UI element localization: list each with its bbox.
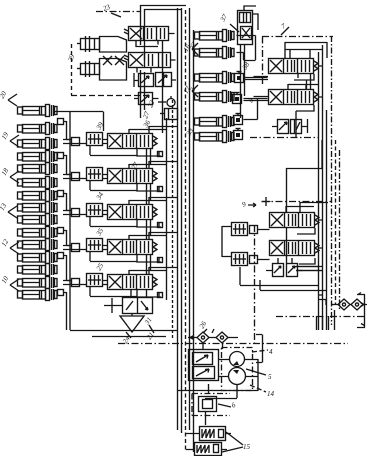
label 22 gauge [146,99,166,109]
enclosure 9 dash-dot top border [262,201,332,203]
cylinder bank row 6 [18,177,58,189]
label 15 [243,443,251,451]
wire V5 drain below [137,290,161,297]
valve V2 pilot box [87,168,103,181]
node V1 spring square [158,152,163,157]
label 31 [143,316,154,327]
fitting on cylinder group 2 [58,153,64,159]
label 4 [269,348,273,356]
wire V2 pilot return [90,181,137,191]
wire upper cylinders feed 2 [244,78,268,120]
label 14 [267,390,275,398]
wire T3 links [134,73,176,87]
cylinder bank row 11 [18,239,58,251]
valve T3 check-relief left [139,74,154,87]
cylinder bank row 15 [18,289,58,301]
wire dash-dot horizontal mid right [250,137,318,139]
wire box6 dash-dot frame [192,394,230,416]
fitting pilot-lock upper cylinder 5 [234,113,243,125]
valve V1 directional control valve [108,134,158,149]
label 27a small [141,110,151,120]
label 30 leader cross [115,56,124,65]
svg-text:18: 18 [0,167,10,177]
wire V1 to bus upper [129,126,178,133]
cylinder bank row 9 [18,214,58,226]
wire V5 feed from cylinders [63,281,107,285]
wire center line short [166,118,168,300]
wire right bus dash-dot 1 [331,36,333,325]
fitting on cylinder group 4 [58,228,64,234]
valve 37 solenoid block outer [238,11,253,45]
enclosure 7 dash-dot left border [262,37,264,86]
pump M2 unit lower [77,61,100,77]
svg-text:37: 37 [218,13,229,24]
valve V4 directional control valve [108,240,158,255]
svg-text:34: 34 [94,191,105,202]
wire bottom-left collector 2 [92,336,166,338]
pump P4 circle lower [229,368,246,385]
wire V4 pilot return [90,252,137,262]
wire right bus line 3 [326,110,328,330]
check valve diamond bottom-center right [216,332,228,343]
valve pair below R2 right [291,120,302,134]
wire V1 pilot return [90,146,137,156]
wire T2 ports [137,60,176,73]
label 34 mid column [94,191,105,202]
wire fitting link 6 [64,292,67,330]
wire right bus dash 2 [335,140,337,305]
wire bottom-left collector 1 [70,330,177,332]
svg-text:38: 38 [240,61,251,72]
wire upper bank stubs [193,36,194,137]
fitting on cylinder group 1 [58,119,64,125]
wire R valves left feeds [244,77,269,101]
wire R1 right port [294,66,322,89]
label 21 [145,325,156,341]
wire fitting link 2 [64,155,71,175]
label 36 mid column [141,119,152,130]
svg-text:35: 35 [94,227,105,238]
wire top drain riser [162,40,164,133]
wire M1 right ports [297,220,323,234]
dashed enclosure bottom border [71,95,150,97]
wire relief inlet [104,298,122,313]
valve relief block bottom of column [123,298,153,314]
label 10 cylinder group [0,275,19,291]
svg-text:5: 5 [268,373,272,381]
label 6 [218,401,237,410]
pump P3 circle upper [230,352,245,367]
wire fitting link 1 [64,121,71,140]
valve T3 check-relief right [156,73,172,87]
tank symbol triangle [120,314,144,333]
cylinder bank row 10 [18,227,58,239]
svg-text:13: 13 [0,202,8,212]
bracket right of pumps [256,335,263,363]
valve V5 directional control valve [108,275,158,290]
valve 37 upper cell [240,13,251,23]
wire M pilots feeds [222,226,270,260]
dashed enclosure left border [71,44,73,95]
wire V1 feed from cylinders [63,140,107,144]
label 39 mid column [94,121,105,132]
pump enclosure B2 dash-dot [222,348,253,391]
wire center bus line 1 [177,8,179,430]
wire V4 feed from cylinders [63,246,107,250]
valve R2 directional valve [269,90,319,105]
wire right bus line 1 [318,52,320,330]
wire dash-dot horizontal right lower [276,316,366,318]
leader to label 4 [252,350,268,352]
fitting on cylinder group 6 [58,290,64,296]
cylinder bank row 4 [18,151,58,163]
wire upper cylinders feed 1 [237,36,256,61]
node V3 spring square [158,223,163,228]
wire R2 top links [288,84,318,89]
cylinder upper bank row 6 [195,131,235,143]
cylinder upper bank row 1 [195,30,235,42]
wire right group double horizontal [292,267,322,271]
svg-text:22: 22 [146,99,156,109]
label 13 cylinder group [0,202,17,218]
label 23 top [102,3,121,17]
label 33 upper cylinders [184,127,195,138]
svg-text:27: 27 [130,161,141,171]
enclosure 9 dash-dot left border [254,225,256,344]
wire top frame inner [145,10,183,61]
valve V2 pilot fitting [72,173,80,181]
leader to label 14 [250,385,266,392]
svg-text:10: 10 [0,275,10,285]
cylinder bank row 14 [18,277,58,289]
label 37 [218,13,239,32]
label 12 cylinder group [0,238,19,254]
wire pump suction drop [205,385,237,399]
valve V3 pilot fitting [72,209,80,217]
wire V2 to bus upper [129,161,178,168]
wire diamonds right row [332,303,367,307]
valve V1 pilot fitting [72,138,80,146]
valve small box below gauge [160,109,178,120]
wire right bus line 2 [322,45,324,330]
cylinder bank row 1 [18,105,58,117]
label 28 leader cross [103,56,112,65]
check valve diamond right 1 [338,299,350,310]
wire fitting link 3 [64,193,71,211]
wire drain top-right to mid-right [286,140,322,263]
wire R1 top links [285,42,327,58]
wire w-box links [134,98,159,100]
node V4 spring square [158,258,163,263]
wire top frame left edge lower [141,70,145,118]
valve pair below M2 left [273,264,284,277]
svg-text:20: 20 [0,90,8,100]
svg-text:4: 4 [269,348,273,356]
label 24 [121,332,132,345]
wire V1 drain below [137,149,161,156]
wire below M2 pair [266,258,303,271]
leader to label 15 [222,432,243,452]
svg-text:31: 31 [143,316,154,327]
valve V4 pilot box [87,239,103,252]
enclosure 7 dash-dot top border [262,36,333,38]
node V5 spring square [158,293,163,298]
svg-text:27: 27 [141,110,151,120]
bracket far right [357,293,365,328]
wire 37 top link to bus [244,6,258,30]
label 7 [280,22,289,35]
fitting pilot-lock upper cylinder 3 [235,71,244,83]
coupling housing lower [100,59,127,81]
wire right bus steps to diamonds [318,295,334,305]
cylinder upper bank row 2 [195,47,235,59]
wire right bus dash-dot 3 [339,150,341,310]
cylinder bank row 8 [18,202,58,214]
wire center bus dashed line [185,10,187,452]
valve V4 pilot fitting [72,244,80,252]
cylinder upper bank row 4 [195,91,235,103]
wire diamonds to servo box [203,344,223,349]
valve V5 pilot box [87,274,103,287]
wire V4 to bus upper [129,232,178,239]
coupling housing upper [100,37,127,53]
wire center bus line 4 [193,30,195,452]
pilot valve small left M2 [232,253,258,266]
wire box6 to heater [206,384,209,425]
filter box 6 [199,397,217,412]
wire fitting link 5 [64,255,71,281]
wire right bus bottom stubs [317,310,335,330]
valve pair below M2 right [287,264,298,277]
wire M1 top links [286,202,328,212]
valve V3 directional control valve [108,205,158,220]
pump M1 unit upper [77,36,100,52]
label 35 mid column [94,227,105,238]
label 19 cylinder group [0,131,19,147]
svg-text:15: 15 [243,443,251,451]
leader to label 5 [246,369,266,375]
wire V3 to bus upper [129,197,178,204]
wire center dashed pilot line [172,100,174,340]
svg-text:12: 12 [0,238,10,248]
wire V4 drain below [137,255,161,262]
wire V5 to bus upper [129,267,178,274]
valve M1 directional valve [270,213,320,228]
valve 37 lower cell [241,27,252,40]
gauge pressure indicator [167,96,175,107]
wire 37 riser pair [241,45,245,119]
svg-text:17: 17 [182,85,193,95]
cylinder bank row 7 [18,190,58,202]
label 20 cylinder group [0,90,17,106]
check valve diamond bottom-center left [197,332,209,343]
svg-text:19: 19 [0,131,10,141]
svg-text:36: 36 [141,119,152,130]
node V2 spring square [158,187,163,192]
wire V2 drain below [137,184,161,191]
cylinder bank row 5 [18,163,58,175]
wire V3 pilot return [90,217,137,227]
svg-text:9: 9 [241,200,247,209]
label 38 [240,61,251,72]
wire center bus line 3 [189,8,191,430]
wire below R2 pair links [272,119,308,133]
wire through diamonds [188,336,238,340]
wire valve column inter-row links [131,149,151,297]
wire M2 right ports [299,248,323,264]
svg-text:6: 6 [230,401,237,410]
wire right mid horizontal links [296,267,322,271]
wire V3 feed from cylinders [63,211,107,215]
wire center bus line 2 [181,8,183,433]
valve V3 pilot box [87,204,103,217]
cylinder bank row 3 [18,138,58,150]
cylinder bank row 12 [18,252,58,264]
valve V5 pilot fitting [72,279,80,287]
wire R2 right port [296,97,322,137]
wire fitting link 4 [64,230,71,246]
wire V3 drain below [137,220,161,227]
pilot valve small left M1 [232,223,258,236]
valve V1 pilot box [87,133,103,146]
label 5 [268,373,272,381]
label 29 rotated [66,53,76,63]
dashed enclosure top dash-dot [96,11,140,13]
cylinder upper bank row 3 [195,72,235,84]
wire T1 ports [136,34,175,47]
svg-text:25: 25 [95,262,106,272]
valve M2 directional valve [270,241,320,256]
valve T1 top distributor [124,27,169,41]
valve small w-box left of gauge [139,93,153,105]
wire right group lower links [240,267,326,291]
svg-text:26: 26 [198,320,209,330]
wire V5 pilot return [90,287,137,297]
wire long dash-dot horizontal bottom [118,343,348,345]
label 16 upper cylinders [182,43,198,55]
check valve diamond right 2 [351,299,363,310]
enclosure 9 cross mark [262,197,271,206]
valve V2 directional control valve [108,169,158,184]
cylinder upper bank row 5 [195,116,235,128]
cylinder bank row 13 [18,264,58,276]
label 26 [198,320,214,333]
servo box B1 outer [189,350,219,381]
label 18 cylinder group [0,167,19,183]
wire top frame of valve block [141,6,187,46]
servo box B1 upper cell [193,353,213,365]
fitting on cylinder group 3 [58,191,64,197]
label 9 [241,200,256,209]
label 25 mid column [95,262,106,272]
valve pair below R2 left [278,120,289,134]
label 27 mid column [130,161,141,171]
fitting pilot-lock upper cylinder 4 [233,92,242,104]
heater element upper [200,427,226,441]
label 8 [247,97,256,104]
valve R1 directional valve [269,59,319,74]
label 17 upper cylinders [182,85,198,97]
wire heater links [186,434,231,450]
cylinder bank row 2 [18,123,58,135]
servo box B1 lower cell [193,367,215,379]
heater element lower [195,443,222,456]
wire V2 feed from cylinders [63,175,107,179]
wire pumps links [178,359,258,391]
fitting pilot-lock upper cylinder 6 [234,128,243,140]
svg-text:14: 14 [267,390,275,398]
wire left riser to pilots [55,112,104,331]
valve T2 top distributor [124,53,171,68]
fitting on cylinder group 5 [58,253,64,259]
